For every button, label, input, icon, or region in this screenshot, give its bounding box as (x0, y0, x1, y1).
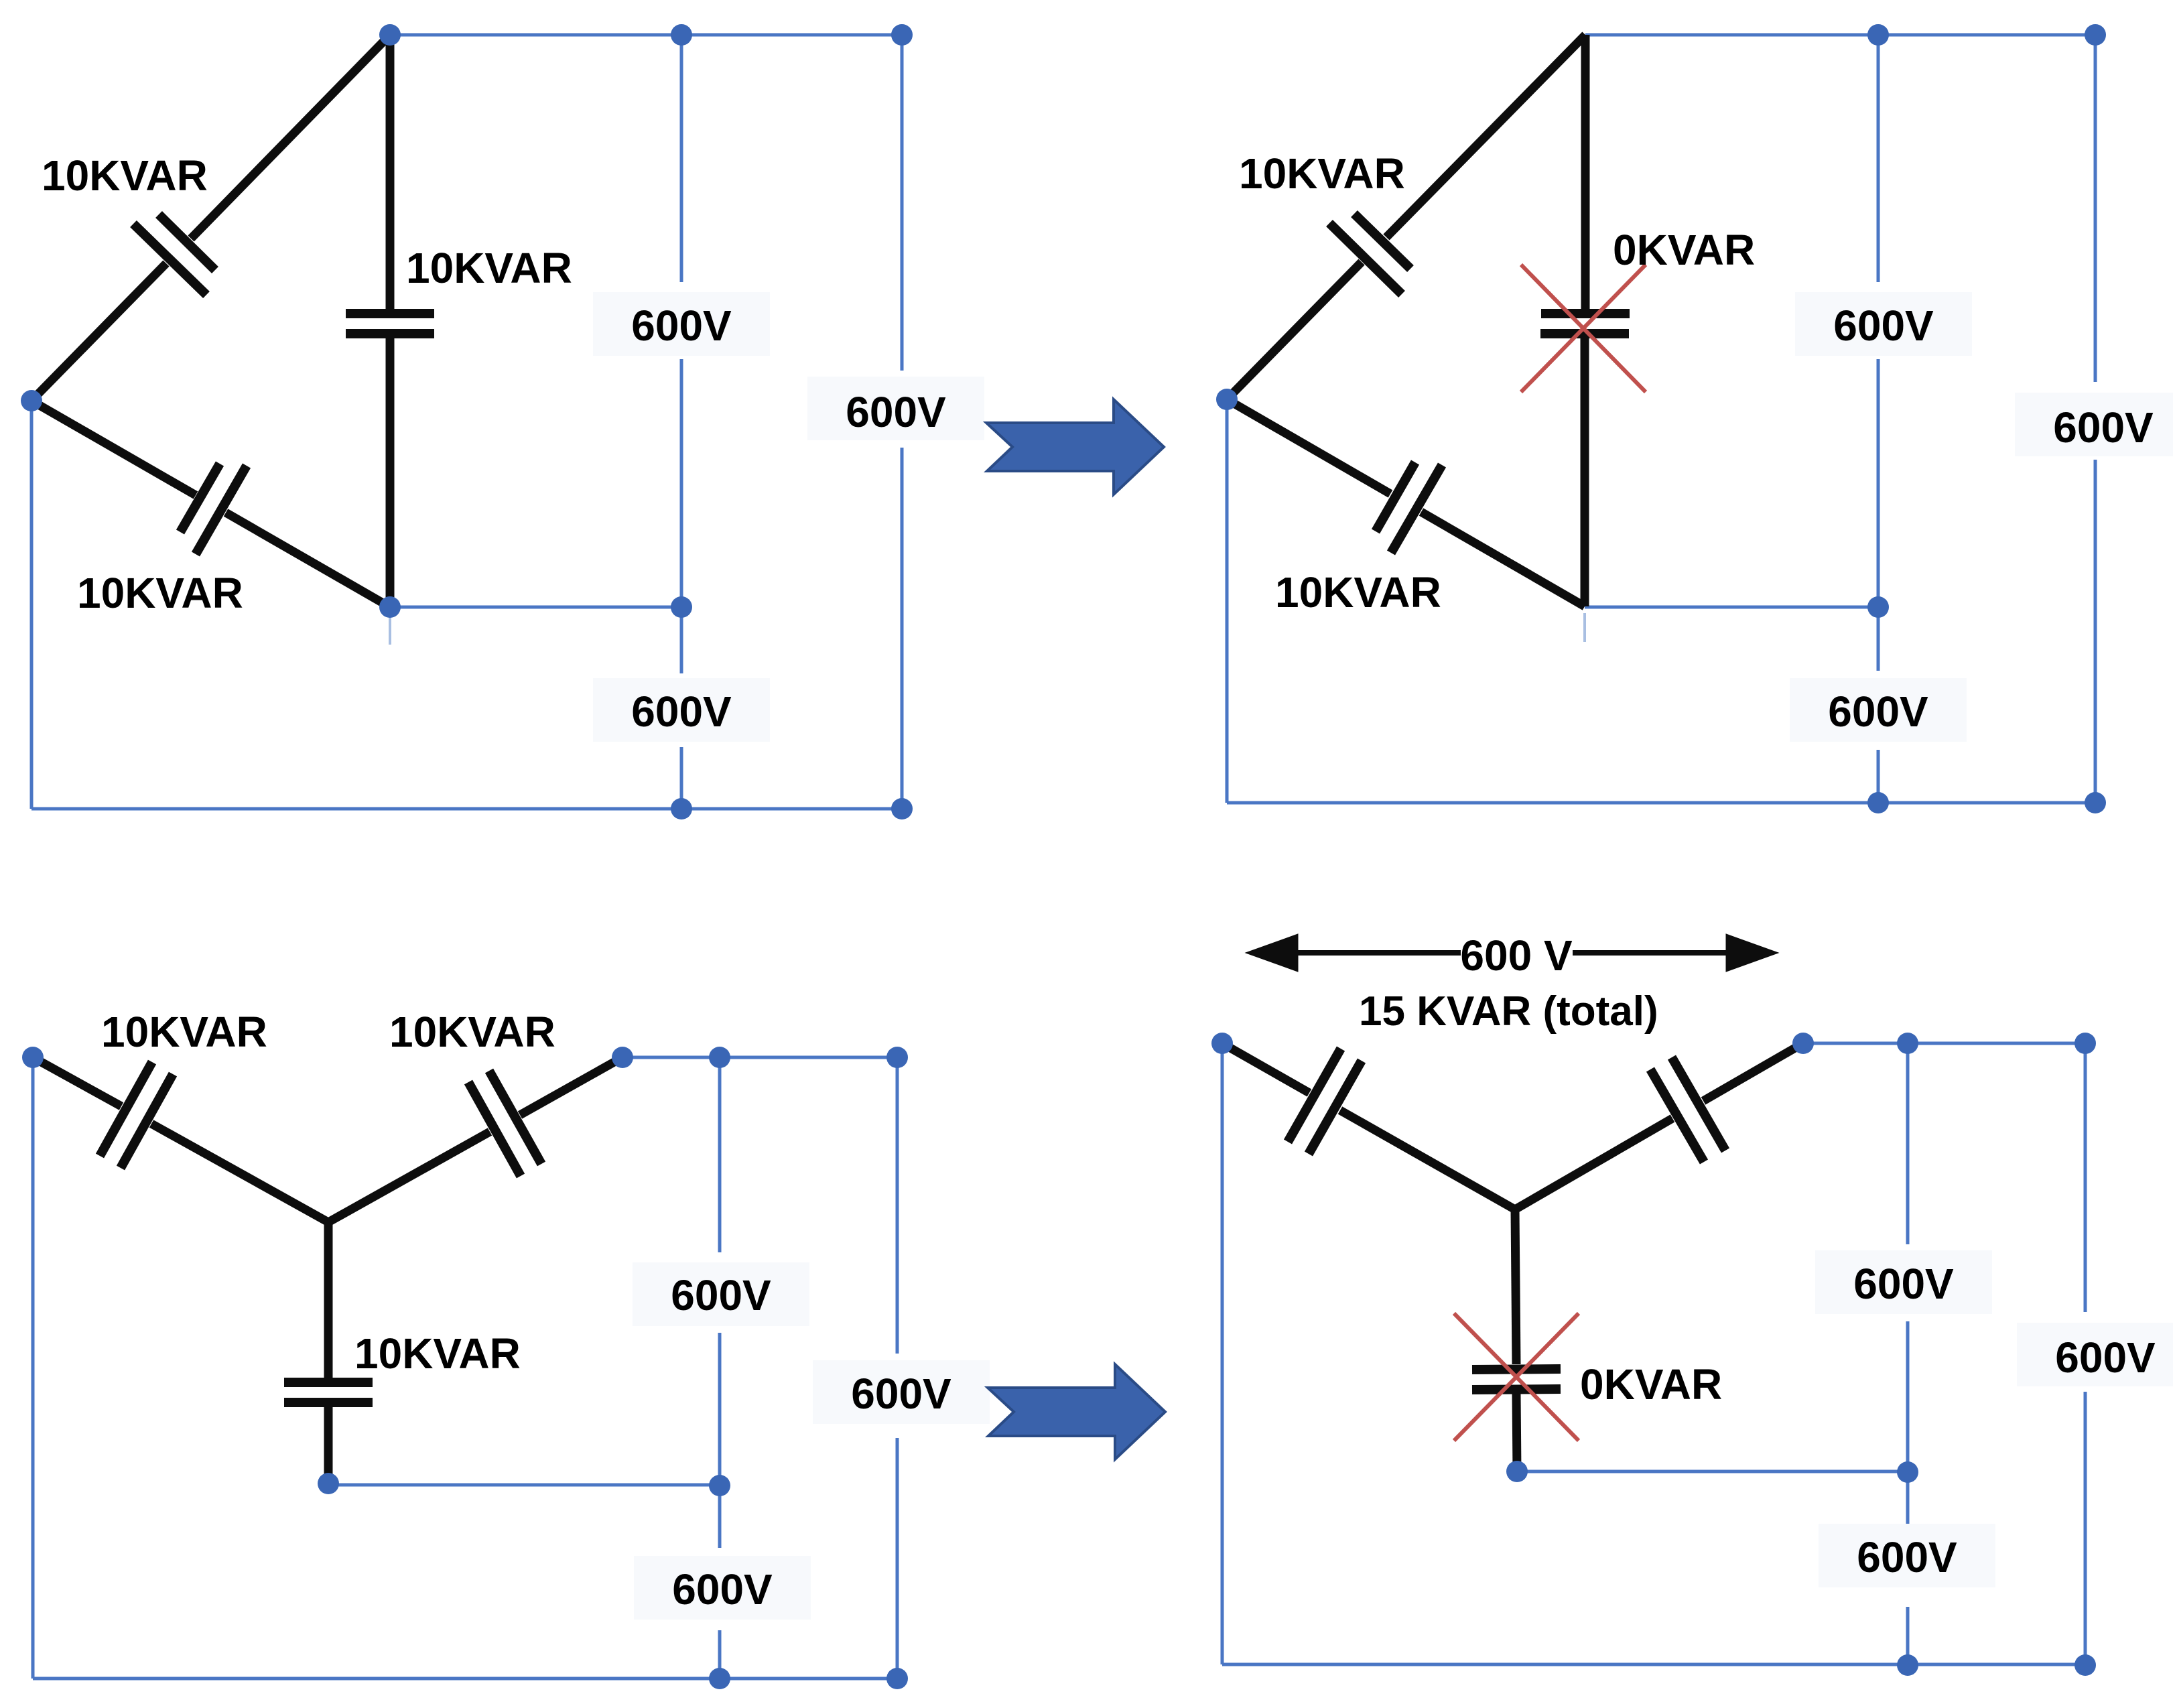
wire mid vertical lower Q2 (1877, 750, 1880, 803)
svg-text:0KVAR: 0KVAR (1613, 226, 1755, 274)
capacitor C9 10KVAR (284, 1378, 373, 1387)
junction top/right Q2 (2085, 24, 2106, 46)
wire mid vertical middle Q2 (1877, 359, 1880, 671)
svg-text:600V: 600V (851, 1370, 951, 1418)
svg-text:15 KVAR (total): 15 KVAR (total) (1359, 988, 1658, 1035)
wire mid vertical lower Q3 (718, 1630, 722, 1679)
junction bottom/mid Q3 (709, 1668, 730, 1689)
wire left rail Q2 (1226, 399, 1229, 803)
wire from star point Q3 (328, 1484, 720, 1487)
wire with C10 10KVAR (1222, 1043, 1309, 1093)
neutral end node Q4 (1506, 1461, 1528, 1482)
wire with C9 10KVAR (324, 1222, 333, 1378)
capacitor C4 10KVAR (1354, 214, 1410, 269)
red X over failed capacitor C6 (1521, 265, 1646, 392)
svg-text:10KVAR: 10KVAR (389, 1008, 555, 1056)
wire with C8 10KVAR (520, 1057, 622, 1115)
wire top bus Q3 (622, 1056, 897, 1059)
junction bottom/right Q1 (891, 798, 913, 819)
junction top/right Q3 (886, 1047, 908, 1068)
junction bottom/right Q3 (886, 1668, 908, 1689)
wire left rail Q4 (1221, 1043, 1224, 1664)
svg-text:10KVAR: 10KVAR (406, 244, 572, 292)
svg-text:600V: 600V (1828, 687, 1928, 736)
svg-text:600V: 600V (1833, 302, 1934, 350)
wire right vertical upper Q2 (2094, 35, 2097, 382)
node C1 (bottom of delta) (379, 596, 401, 618)
svg-text:10KVAR: 10KVAR (1239, 149, 1405, 198)
svg-text:600V: 600V (1857, 1533, 1957, 1581)
wire from star point Q4 (1517, 1470, 1908, 1473)
wire mid vertical upper Q2 (1877, 35, 1880, 282)
wire bottom bus Q1 (31, 807, 902, 811)
svg-text:10KVAR: 10KVAR (354, 1329, 521, 1378)
wire top bus Q1 (390, 34, 902, 37)
svg-text:600V: 600V (2055, 1333, 2156, 1382)
junction bottom/right Q4 (2075, 1654, 2096, 1676)
arrow wye transform (988, 1364, 1165, 1459)
capacitor C7 10KVAR (100, 1062, 152, 1156)
wire right vertical lower Q2 (2094, 460, 2097, 803)
node A1 (top of delta) (379, 24, 401, 46)
node B3 (right phase) (612, 1047, 633, 1068)
neutral end node Q3 (318, 1473, 339, 1494)
wire mid vertical middle Q3 (718, 1333, 722, 1548)
capacitor C1 10KVAR (159, 214, 215, 270)
svg-text:600V: 600V (631, 302, 732, 350)
wire from bottom node Q1 (390, 606, 681, 609)
wire mid vertical upper Q4 (1906, 1043, 1910, 1244)
junction top/mid Q4 (1897, 1033, 1918, 1054)
svg-text:0KVAR: 0KVAR (1580, 1360, 1722, 1408)
svg-text:600V: 600V (631, 687, 732, 736)
wire with C2 10KVAR (31, 401, 196, 495)
capacitor C5 10KVAR (1376, 462, 1415, 531)
wire right vertical lower Q3 (896, 1438, 899, 1679)
junction top/mid Q3 (709, 1047, 730, 1068)
junction mid Q3 (709, 1475, 730, 1496)
capacitor C10 10KVAR (1288, 1049, 1341, 1142)
wire bottom bus Q3 (33, 1677, 897, 1681)
wire left rail Q1 (30, 401, 34, 809)
capacitor C6 failed 0KVAR (1541, 309, 1630, 318)
junction top/right Q1 (891, 24, 913, 46)
wire mid vertical lower Q4 (1906, 1607, 1910, 1664)
junction mid Q2 (1867, 596, 1889, 618)
svg-text:600V: 600V (2053, 403, 2154, 452)
wire mid vertical middle Q1 (680, 359, 683, 673)
capacitor C3 10KVAR (346, 309, 434, 318)
svg-text:600 V: 600 V (1460, 931, 1573, 980)
svg-text:600V: 600V (672, 1565, 773, 1614)
svg-text:10KVAR: 10KVAR (42, 151, 208, 200)
wire mid vertical middle Q4 (1906, 1321, 1910, 1536)
capacitor C11 10KVAR (1672, 1057, 1725, 1151)
wire right vertical upper Q1 (901, 35, 904, 371)
dimension arrow 600 V across wye (1246, 934, 1778, 972)
wire right vertical upper Q4 (2084, 1043, 2087, 1312)
junction top/mid Q2 (1867, 24, 1889, 46)
junction mid Q1 (671, 596, 692, 618)
capacitor C12 failed 0KVAR (1472, 1369, 1561, 1370)
wire with C6 failed 0KVAR (1581, 35, 1590, 309)
wire bottom bus Q4 (1222, 1663, 2085, 1666)
faint stub below bottom node Q2 (1583, 613, 1586, 642)
wire with C7 10KVAR (33, 1057, 121, 1106)
wire mid vertical lower Q1 (680, 747, 683, 809)
capacitor C8 10KVAR (489, 1071, 541, 1164)
junction top/mid Q1 (671, 24, 692, 46)
wire right vertical lower Q4 (2084, 1392, 2087, 1664)
wire with C4 10KVAR (1386, 35, 1585, 237)
node B2 (left of delta) (1216, 389, 1238, 410)
capacitor C2 10KVAR (180, 464, 220, 532)
wire mid vertical upper Q3 (718, 1057, 722, 1252)
wire left rail Q3 (31, 1057, 35, 1679)
junction bottom/mid Q1 (671, 798, 692, 819)
wire top bus Q4 (1803, 1042, 2085, 1045)
svg-text:600V: 600V (1853, 1260, 1954, 1308)
wire top bus Q2 (1585, 34, 2095, 37)
junction bottom/mid Q2 (1867, 792, 1889, 813)
wire from bottom node Q2 (1585, 606, 1878, 609)
junction mid Q4 (1897, 1461, 1918, 1483)
junction bottom/right Q2 (2085, 792, 2106, 813)
wire right vertical upper Q3 (896, 1057, 899, 1354)
svg-text:10KVAR: 10KVAR (101, 1008, 267, 1056)
red X over failed capacitor C12 (1454, 1313, 1579, 1441)
node A4 (left phase) (1211, 1033, 1233, 1054)
arrow delta transform (986, 399, 1164, 495)
wire with C1 10KVAR (191, 35, 390, 239)
svg-text:600V: 600V (671, 1271, 771, 1319)
node A3 (left phase) (22, 1047, 44, 1068)
wire mid vertical upper Q1 (680, 35, 683, 282)
junction top/right Q4 (2075, 1033, 2096, 1054)
wire bottom bus Q2 (1227, 801, 2095, 805)
wire with C12 failed 0KVAR (1515, 1209, 1516, 1364)
wire with C3 10KVAR (386, 35, 395, 309)
node B4 (right phase) (1792, 1033, 1814, 1054)
svg-text:600V: 600V (846, 388, 946, 436)
wire with C5 10KVAR (1227, 399, 1390, 494)
svg-text:10KVAR: 10KVAR (77, 569, 243, 617)
faint stub below bottom node Q1 (389, 613, 391, 645)
node B1 (left of delta) (21, 390, 42, 411)
wire right vertical lower Q1 (901, 448, 904, 809)
svg-text:10KVAR: 10KVAR (1275, 568, 1441, 616)
wire with C11 10KVAR (1703, 1043, 1803, 1101)
junction bottom/mid Q4 (1897, 1654, 1918, 1676)
